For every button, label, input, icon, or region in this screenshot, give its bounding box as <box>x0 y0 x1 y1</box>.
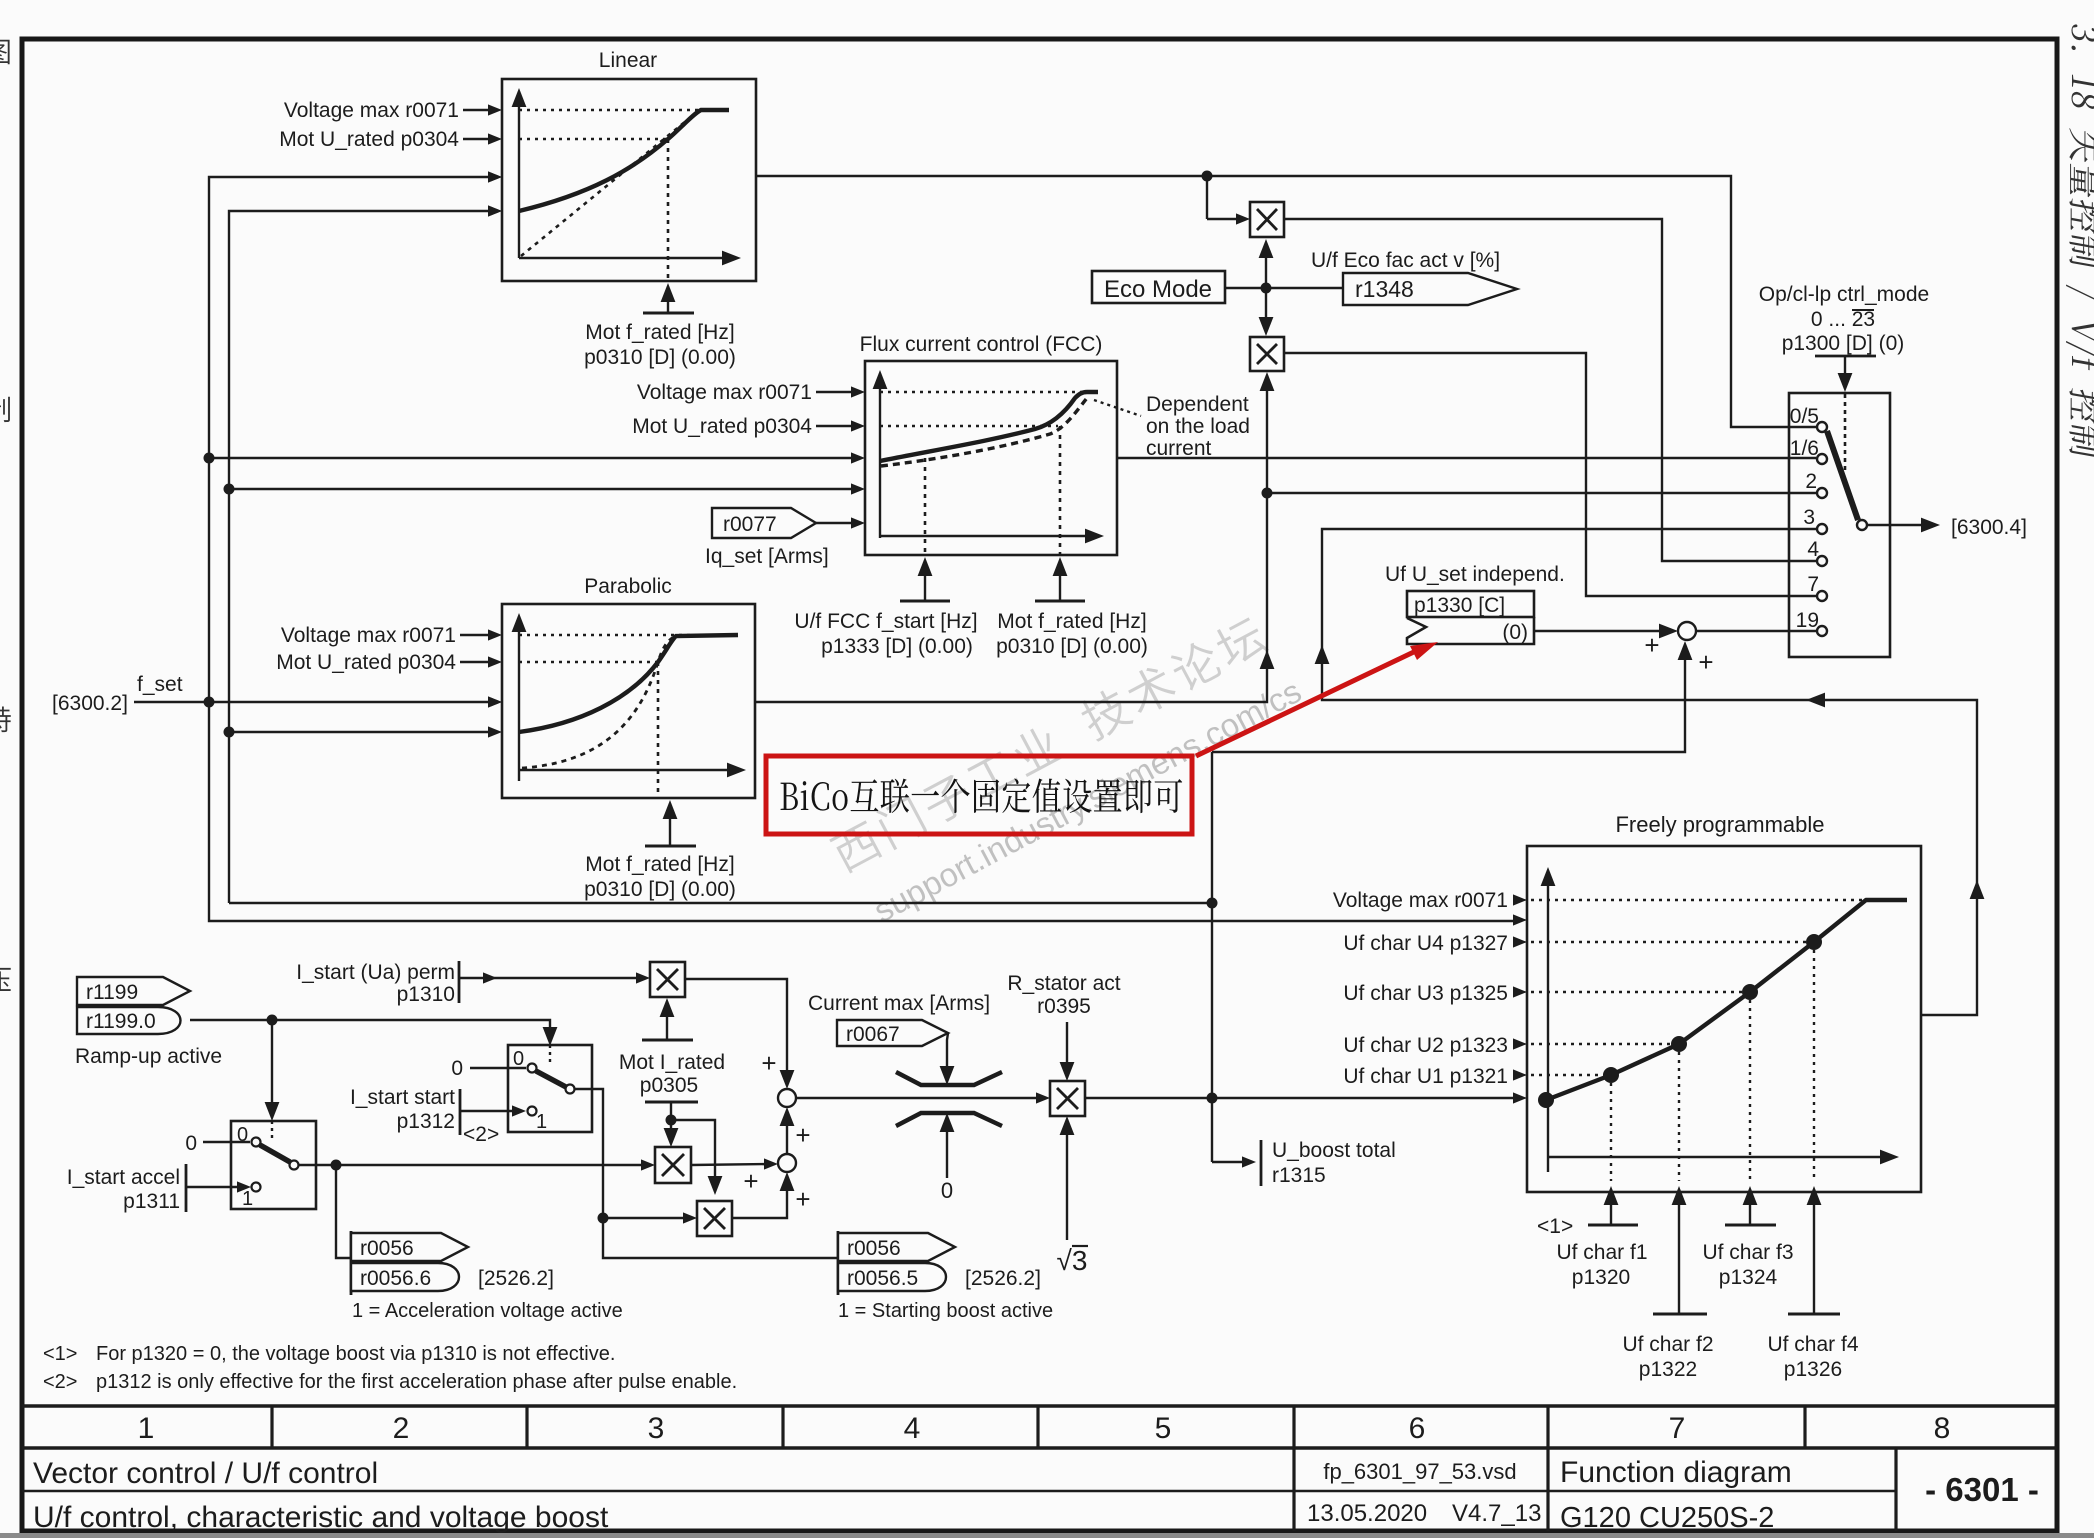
junction parabolic to selector 2 <box>1262 488 1273 499</box>
linear curve <box>519 110 729 211</box>
svg-text:<1>: <1> <box>43 1343 77 1365</box>
title block table <box>22 1404 2057 1407</box>
right margin vertical text <box>2066 23 2094 460</box>
FCC below tick p0310 <box>1059 562 1061 601</box>
wire X1 output to selector 4 <box>1284 219 1816 561</box>
freely dotted vertical f3 <box>1749 992 1751 1181</box>
svg-text:Uf char U4 p1327: Uf char U4 p1327 <box>1343 932 1508 955</box>
svg-text:U/f FCC f_start [Hz]: U/f FCC f_start [Hz] <box>794 610 977 633</box>
svg-text:p1333 [D] (0.00): p1333 [D] (0.00) <box>821 635 973 658</box>
freely f2 arrow <box>1678 1191 1680 1314</box>
svg-text:Voltage max r0071: Voltage max r0071 <box>284 99 459 122</box>
svg-text:1/6: 1/6 <box>1790 437 1819 460</box>
wire X2 output to selector 7 <box>1284 353 1816 596</box>
freely input arrows <box>1513 894 1527 905</box>
multiplier X4 box <box>655 1147 691 1183</box>
p0305 branch to X5 <box>671 1120 715 1189</box>
X4 output to S2 <box>691 1164 771 1165</box>
parabolic dashed curve <box>522 637 674 768</box>
f_set down to freely box <box>209 702 1520 921</box>
multiplier X3 box <box>650 962 685 997</box>
freely y-axis <box>1547 872 1549 1172</box>
freely dotted level U4 <box>1531 941 1814 943</box>
svg-text:For p1320 = 0, the voltage boo: For p1320 = 0, the voltage boost via p13… <box>96 1343 615 1365</box>
svg-text:Uf char f3: Uf char f3 <box>1702 1241 1793 1264</box>
p1330 parameter box <box>1407 591 1534 617</box>
multiplier X6 box <box>1050 1081 1085 1116</box>
svg-text:Mot f_rated [Hz]: Mot f_rated [Hz] <box>997 610 1146 633</box>
svg-text:r0067: r0067 <box>846 1023 900 1046</box>
svg-text:fp_6301_97_53.vsd: fp_6301_97_53.vsd <box>1323 1459 1516 1484</box>
wire boost into S3 <box>1212 647 1685 752</box>
svg-text:R_stator act: R_stator act <box>1007 972 1120 995</box>
junction U_boost at X6 output <box>1207 1093 1218 1104</box>
svg-text:0: 0 <box>941 1178 953 1203</box>
svg-text:0: 0 <box>185 1132 197 1155</box>
selector contact 4 <box>1817 556 1827 566</box>
svg-text:0: 0 <box>451 1057 463 1080</box>
freely f4 arrow <box>1813 1191 1815 1314</box>
switch1 contact 0 <box>252 1138 261 1147</box>
linear input arrows <box>488 104 502 115</box>
svg-text:1: 1 <box>242 1188 253 1210</box>
svg-text:Function diagram: Function diagram <box>1560 1456 1792 1489</box>
wire S3 to contact 19 <box>1696 630 1816 632</box>
linear x-axis <box>519 257 730 259</box>
FCC r0077 wire <box>816 522 857 524</box>
junction p0305 <box>666 1115 677 1126</box>
svg-text:+: + <box>795 1184 810 1214</box>
freely dotted level r0071 <box>1531 899 1866 901</box>
r1315 output stub <box>1212 1161 1250 1163</box>
svg-text:Uf char U1 p1321: Uf char U1 p1321 <box>1343 1065 1508 1088</box>
X6 output to freely box <box>1085 1097 1520 1099</box>
r1199 flag <box>77 977 190 1005</box>
svg-text:+: + <box>1644 630 1659 660</box>
f_set vertical spine <box>209 177 495 702</box>
wire parabolic output up to X2 <box>755 377 1267 702</box>
parabolic characteristic box <box>502 604 755 798</box>
switch1 common contact <box>290 1161 299 1170</box>
freely dotted vertical f1 <box>1610 1075 1612 1181</box>
switch2 contact 0 <box>528 1064 537 1073</box>
svg-text:p1330 [C]: p1330 [C] <box>1414 594 1505 617</box>
svg-text:Mot I_rated: Mot I_rated <box>619 1051 725 1074</box>
junction eco node <box>1261 283 1272 294</box>
FCC characteristic box <box>865 361 1117 555</box>
FCC label stubs <box>816 391 857 393</box>
svg-text:p0310 [D] (0.00): p0310 [D] (0.00) <box>584 346 736 369</box>
svg-text:p1311: p1311 <box>123 1190 180 1213</box>
parabolic y-axis <box>518 618 520 781</box>
selector contact 19 <box>1817 626 1827 636</box>
svg-text:[2526.2]: [2526.2] <box>965 1267 1041 1290</box>
svg-text:Uf U_set independ.: Uf U_set independ. <box>1385 563 1565 586</box>
svg-text:Uf char f2: Uf char f2 <box>1622 1333 1713 1356</box>
multiplier X1 box <box>1250 202 1284 237</box>
switch2 blade <box>536 1071 566 1087</box>
svg-text:r1199: r1199 <box>86 981 138 1004</box>
S2 output up to S1 <box>786 1113 788 1154</box>
svg-text:1: 1 <box>138 1412 155 1445</box>
X5 output up to S2 <box>732 1178 787 1218</box>
multiplier X2 box <box>1250 337 1284 371</box>
junction boost to FCC <box>224 484 235 495</box>
switch1 box <box>231 1121 316 1209</box>
parabolic input arrows <box>488 629 502 640</box>
r0056.6 flag <box>351 1263 459 1291</box>
junction f_set to FCC <box>204 453 215 464</box>
svg-text:Parabolic: Parabolic <box>584 575 672 598</box>
svg-text:Mot U_rated p0304: Mot U_rated p0304 <box>276 651 456 674</box>
linear y-axis <box>518 92 520 258</box>
freely dotted level U2 <box>1531 1043 1679 1045</box>
svg-text:Vector control / U/f control: Vector control / U/f control <box>33 1457 378 1490</box>
svg-text:r1348: r1348 <box>1355 276 1414 302</box>
svg-text:19: 19 <box>1796 609 1819 632</box>
watermark <box>828 609 1307 933</box>
parabolic dotted level r0071 <box>519 634 700 636</box>
selector contact 3 <box>1817 524 1827 534</box>
r0067 wire down to limiter <box>947 1033 948 1079</box>
wire FCC output to selector 1/6 <box>1117 457 1816 459</box>
svg-text:r1315: r1315 <box>1272 1164 1326 1187</box>
r0067 flag <box>837 1020 948 1046</box>
svg-text:7: 7 <box>1669 1412 1686 1445</box>
X3 bottom input p0305 <box>666 1003 668 1040</box>
freely curve <box>1546 900 1907 1100</box>
junction U_boost top <box>1207 898 1218 909</box>
selector contact 7 <box>1817 591 1827 601</box>
boost branch to parabolic <box>229 731 495 733</box>
svg-text:Voltage max r0071: Voltage max r0071 <box>281 624 456 647</box>
r1348 flag <box>1343 273 1517 305</box>
boost vertical spine <box>229 211 495 903</box>
svg-text:Uf char f4: Uf char f4 <box>1767 1333 1858 1356</box>
svg-text:p1312: p1312 <box>397 1110 455 1133</box>
summator S2 <box>778 1154 796 1172</box>
svg-text:1 = Acceleration voltage activ: 1 = Acceleration voltage active <box>352 1300 623 1322</box>
summator S3 <box>1678 622 1696 640</box>
switch1 output wire to X4 <box>298 1164 648 1166</box>
limiter upper claw <box>896 1072 1002 1085</box>
wire eco mode to r1348 <box>1225 287 1343 289</box>
svg-text:U_boost total: U_boost total <box>1272 1139 1396 1162</box>
svg-text:V4.7_13: V4.7_13 <box>1452 1500 1541 1527</box>
svg-text:on the load: on the load <box>1146 415 1250 438</box>
r0056 flag <box>351 1233 468 1261</box>
svg-text:I_start accel: I_start accel <box>67 1166 180 1189</box>
FCC dotted pointer to note <box>1094 400 1141 416</box>
switch2 0 input stub <box>470 1067 526 1069</box>
svg-text:p1324: p1324 <box>1719 1266 1778 1289</box>
svg-text:5: 5 <box>1155 1412 1172 1445</box>
freely dotted level U1 <box>1531 1074 1611 1076</box>
FCC dashed curve load dependent <box>881 398 1087 466</box>
freely programmable box <box>1527 846 1921 1192</box>
parabolic dashed vertical p0310 <box>657 662 660 796</box>
junction switch2 output <box>598 1213 609 1224</box>
svg-text:Voltage max r0071: Voltage max r0071 <box>1333 889 1508 912</box>
p0305 lower tick <box>645 1101 698 1104</box>
svg-text:p0305: p0305 <box>640 1074 698 1097</box>
linear below arrow p0310 <box>667 288 669 313</box>
r0056 flag bar <box>350 1231 353 1295</box>
svg-text:I_start start: I_start start <box>350 1086 455 1109</box>
svg-text:8: 8 <box>1934 1412 1951 1445</box>
junction switch1 output <box>331 1160 342 1171</box>
freely dotted vertical f4 <box>1813 942 1815 1181</box>
svg-text:4: 4 <box>1807 538 1819 561</box>
svg-text:+: + <box>795 1120 810 1150</box>
switch1 0 input stub <box>203 1141 250 1143</box>
svg-text:f_set: f_set <box>137 673 183 696</box>
linear dashed vertical at f_rated <box>667 139 670 279</box>
FCC dashed vertical p1333 <box>924 458 927 554</box>
parabolic label stubs <box>460 634 494 636</box>
p1310 tick and wire <box>458 961 461 1003</box>
svg-text:r0056.6: r0056.6 <box>360 1267 431 1290</box>
FCC dotted level p0304 <box>880 425 1058 427</box>
svg-text:U/f Eco fac act v [%]: U/f Eco fac act v [%] <box>1311 249 1500 272</box>
junction boost to parabolic <box>224 727 235 738</box>
FCC dotted level r0071 <box>880 391 1085 393</box>
svg-text:Uf char f1: Uf char f1 <box>1556 1241 1647 1264</box>
wire to r0056 flags <box>336 1165 351 1258</box>
junction r1199.0 branch <box>267 1015 278 1026</box>
svg-text:+: + <box>761 1048 776 1078</box>
eco mode box <box>1092 271 1225 303</box>
left margin clipped glyphs <box>0 40 11 992</box>
parabolic below arrow p0310 <box>669 805 671 846</box>
FCC solid curve <box>880 392 1098 461</box>
svg-text:Freely programmable: Freely programmable <box>1615 812 1824 837</box>
wire branch down to switch1 <box>271 1020 273 1115</box>
svg-text:p1312 is only effective for th: p1312 is only effective for the first ac… <box>96 1371 737 1393</box>
freely dotted vertical f2 <box>1678 1044 1680 1181</box>
junction f_set entry <box>204 697 215 708</box>
selector dashed drop from p1300 <box>1844 394 1847 470</box>
svg-text:Eco Mode: Eco Mode <box>1104 276 1212 303</box>
wire linear output to selector 0/5 <box>756 176 1816 427</box>
limiter zero input <box>946 1119 948 1178</box>
svg-text:r0056.5: r0056.5 <box>847 1267 918 1290</box>
freely dotted level U3 <box>1531 991 1750 993</box>
boost branch to FCC <box>229 488 857 490</box>
svg-text:Op/cl-lp ctrl_mode: Op/cl-lp ctrl_mode <box>1759 283 1929 306</box>
p1330 output wire to summator <box>1534 630 1672 632</box>
svg-text:[6300.2]: [6300.2] <box>52 692 128 715</box>
svg-text:p1300 [D] (0): p1300 [D] (0) <box>1782 332 1905 355</box>
svg-text:p0310 [D] (0.00): p0310 [D] (0.00) <box>584 878 736 901</box>
U_boost vertical <box>1211 752 1213 1162</box>
svg-text:2: 2 <box>393 1412 410 1445</box>
svg-text:<2>: <2> <box>463 1123 499 1146</box>
parabolic solid curve <box>519 635 738 732</box>
svg-text:p0310 [D] (0.00): p0310 [D] (0.00) <box>996 635 1148 658</box>
red annotation box <box>766 756 1192 834</box>
limiter lower claw <box>896 1113 1002 1126</box>
FCC x-axis <box>880 535 1093 537</box>
svg-text:0: 0 <box>237 1124 248 1146</box>
sqrt3 wire into X6 <box>1066 1122 1068 1240</box>
switch1 contact 1 <box>252 1183 261 1192</box>
svg-text:6: 6 <box>1409 1412 1426 1445</box>
switch1 blade <box>260 1145 290 1162</box>
svg-text:Mot U_rated p0304: Mot U_rated p0304 <box>279 128 459 151</box>
bottom gray strip <box>0 1533 2094 1538</box>
svg-text:1: 1 <box>536 1111 547 1133</box>
svg-text:Uf char U2 p1323: Uf char U2 p1323 <box>1343 1034 1508 1057</box>
p1312 tick and arrow <box>459 1089 462 1135</box>
svg-text:p1322: p1322 <box>1639 1358 1697 1381</box>
svg-text:current: current <box>1146 437 1212 460</box>
switch2 box <box>508 1045 592 1132</box>
svg-text:1 = Starting boost active: 1 = Starting boost active <box>838 1300 1053 1322</box>
svg-text:(0): (0) <box>1502 621 1528 644</box>
red arrow to p1330 <box>1196 649 1420 756</box>
FCC r0077 flag <box>712 508 816 538</box>
FCC below tick p1333 <box>924 562 926 601</box>
svg-text:G120 CU250S-2: G120 CU250S-2 <box>1560 1502 1774 1534</box>
multiplier X5 box <box>697 1201 732 1236</box>
X3 output to S1 <box>685 979 787 1083</box>
svg-text:0 ... 23: 0 ... 23 <box>1811 308 1875 331</box>
svg-text:p1320: p1320 <box>1572 1266 1630 1289</box>
svg-text:r1199.0: r1199.0 <box>86 1010 156 1033</box>
svg-text:r0056: r0056 <box>360 1237 414 1260</box>
svg-text:Dependent: Dependent <box>1146 393 1249 416</box>
svg-text:U/f control, characteristic an: U/f control, characteristic and voltage … <box>33 1501 609 1534</box>
selector blade end <box>1857 520 1867 530</box>
svg-text:p1326: p1326 <box>1784 1358 1842 1381</box>
linear label stubs <box>463 109 494 111</box>
selector contact 0/5 <box>1817 422 1827 432</box>
svg-text:13.05.2020: 13.05.2020 <box>1307 1500 1427 1527</box>
freely curve point dots <box>1538 934 1822 1108</box>
r0056.5 flag <box>838 1263 946 1291</box>
linear dotted level p0304 <box>519 138 668 140</box>
r0056 flag bar 2 <box>837 1231 840 1295</box>
wire parabolic branch to selector 2 <box>1267 492 1816 494</box>
p1311 tick and arrow <box>185 1164 188 1212</box>
wire eco to X1 bottom <box>1265 244 1267 288</box>
svg-text:7: 7 <box>1807 573 1819 596</box>
svg-text:Mot U_rated p0304: Mot U_rated p0304 <box>632 415 812 438</box>
junction linear out to X1 <box>1202 171 1213 182</box>
svg-text:<1>: <1> <box>1537 1215 1573 1238</box>
summator S1 <box>778 1089 796 1107</box>
svg-text:r0077: r0077 <box>723 513 777 536</box>
svg-text:+: + <box>743 1166 758 1196</box>
wire freely output feedback to selector 3 <box>1322 529 1977 1015</box>
r0395 wire into X6 <box>1066 1022 1068 1075</box>
parabolic dotted level p0304 <box>519 661 658 663</box>
svg-text:√3: √3 <box>1057 1245 1088 1276</box>
selector output wire <box>1866 524 1933 526</box>
svg-text:Mot f_rated [Hz]: Mot f_rated [Hz] <box>585 853 734 876</box>
freely x-axis <box>1548 1156 1888 1158</box>
svg-text:[2526.2]: [2526.2] <box>478 1267 554 1290</box>
f_set branch to FCC <box>209 457 857 459</box>
switch2 output wire <box>574 1089 838 1258</box>
svg-text:0/5: 0/5 <box>1790 405 1819 428</box>
freely f3 arrow <box>1749 1191 1751 1225</box>
svg-text:<2>: <2> <box>43 1371 77 1393</box>
wire eco to X2 top <box>1265 288 1267 330</box>
svg-text:Iq_set [Arms]: Iq_set [Arms] <box>705 545 829 568</box>
svg-text:r0395: r0395 <box>1037 995 1091 1018</box>
switch2 common contact <box>566 1085 575 1094</box>
svg-text:Flux current control (FCC): Flux current control (FCC) <box>860 333 1103 356</box>
red annotation text <box>781 779 1183 814</box>
parabolic x-axis <box>519 769 735 771</box>
svg-text:+: + <box>1698 647 1713 677</box>
selector contact 1/6 <box>1817 454 1827 464</box>
r0056 flag 2 <box>838 1233 955 1261</box>
switch2 contact 1 <box>528 1107 537 1116</box>
svg-text:- 6301 -: - 6301 - <box>1925 1471 2039 1508</box>
svg-text:2: 2 <box>1805 470 1817 493</box>
linear dotted level r0071 <box>519 109 703 111</box>
FCC input arrows <box>851 386 865 397</box>
linear dashed diagonal <box>521 112 697 256</box>
svg-text:0: 0 <box>513 1048 524 1070</box>
title block texts <box>138 1412 1951 1445</box>
wire branch to X5 <box>603 1217 690 1219</box>
svg-text:r0056: r0056 <box>847 1237 901 1260</box>
svg-text:3: 3 <box>1803 506 1815 529</box>
boost horizontal to U_boost node <box>229 902 1212 904</box>
svg-text:Ramp-up active: Ramp-up active <box>75 1045 222 1068</box>
svg-text:4: 4 <box>904 1412 921 1445</box>
svg-text:I_start (Ua) perm: I_start (Ua) perm <box>296 961 455 984</box>
selector contact 2 <box>1817 488 1827 498</box>
selector blade <box>1827 431 1858 520</box>
f_set input wire <box>134 701 495 703</box>
svg-text:[6300.4]: [6300.4] <box>1951 516 2027 539</box>
svg-text:3: 3 <box>648 1412 665 1445</box>
svg-text:Mot f_rated [Hz]: Mot f_rated [Hz] <box>585 321 734 344</box>
p1300 tick and arrow <box>1815 355 1876 358</box>
svg-text:Voltage max r0071: Voltage max r0071 <box>637 381 812 404</box>
svg-text:p1310: p1310 <box>397 983 455 1006</box>
S1 output to limiter and X6 <box>796 1097 1043 1099</box>
FCC y-axis <box>879 375 881 538</box>
wire r1199.0 to switch2 <box>190 1020 550 1040</box>
FCC dashed vertical p0310 <box>1059 426 1062 554</box>
linear characteristic box <box>502 79 756 281</box>
selector switch box <box>1789 393 1890 657</box>
svg-text:Current max [Arms]: Current max [Arms] <box>808 992 990 1015</box>
wire linear out to X1 <box>1206 176 1208 219</box>
r1199.0 flag <box>77 1007 181 1034</box>
svg-text:Linear: Linear <box>599 49 657 72</box>
svg-text:Uf char U3 p1325: Uf char U3 p1325 <box>1343 982 1508 1005</box>
freely f1 arrow <box>1610 1191 1612 1225</box>
